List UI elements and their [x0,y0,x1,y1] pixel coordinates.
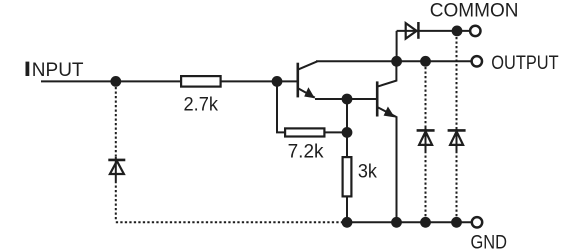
svg-text:OUTPUT: OUTPUT [491,52,559,73]
wire node A down to 7.2k left [277,81,286,132]
wire dotted bottom horizontal to GND node [116,221,342,223]
terminal OUTPUT [472,56,482,66]
terminal GND [472,217,482,227]
wire 2.7k to Q1 base [220,80,298,82]
diode D1 flyback to COMMON [406,22,419,39]
node C 7.2k/3k junction [342,127,353,138]
wire dotted output node to clamp diode D3 [425,67,427,127]
svg-text:GND: GND [470,231,507,251]
wire common line [397,30,470,32]
wire output top line [316,60,471,62]
transistor Q1 [298,61,318,98]
svg-text:3k: 3k [358,160,378,182]
node GND clamp D3 [420,217,431,228]
wire dotted input node to input diode [115,87,117,157]
node output clamp tap [420,56,431,67]
wire dotted input diode to bottom corner [115,181,117,221]
node common clamp tap [452,26,463,37]
wire node B vertical to 3k top [346,99,348,158]
wire 7.2k right to node B [324,131,348,133]
resistor R3 3k [343,157,378,196]
wire Q2 collector node up to diode anode [396,31,398,61]
resistor R2 7.2k [285,128,324,162]
diode D2 input clamp [108,157,125,181]
svg-text:2.7k: 2.7k [184,93,219,114]
wire dotted common node to clamp diode D4 [456,37,458,127]
label INPUT [26,60,84,81]
node GND clamp D4 [451,217,462,228]
wire dotted clamp diode D3 to GND [425,151,427,217]
resistor R1 2.7k [181,76,221,115]
svg-text:7.2k: 7.2k [288,142,324,163]
node B Q1 emitter / Q2 base [342,94,353,105]
terminal COMMON [470,26,480,36]
svg-text:COMMON: COMMON [430,1,519,22]
wire GND solid line [342,221,472,223]
diode D3 output clamp [417,127,435,151]
node input junction [110,76,121,87]
wire Q1 emitter to Q2 base [315,98,376,100]
svg-text:NPUT: NPUT [32,60,84,81]
wire Q2 emitter vertical to GND [396,116,398,222]
diode D4 common clamp [448,127,466,151]
node Q2 collector on output line [391,56,402,67]
node GND 3k [342,217,353,228]
transistor Q2 [377,62,396,117]
node A base/7.2k junction [272,76,283,87]
wire 3k bottom to GND [346,197,348,223]
wire dotted clamp diode D4 to GND [456,151,458,217]
node GND emitter [391,217,402,228]
wire input horizontal [41,80,182,82]
